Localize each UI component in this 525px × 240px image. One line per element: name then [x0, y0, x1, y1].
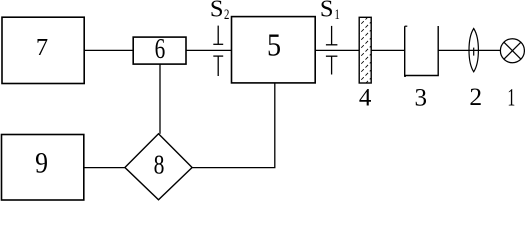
svg-text:1: 1 — [335, 5, 340, 22]
box 6 — [133, 37, 186, 64]
diamond 8 — [125, 134, 192, 200]
svg-text:2: 2 — [224, 5, 229, 22]
svg-text:7: 7 — [36, 34, 48, 61]
shutter S1 — [326, 26, 338, 75]
svg-text:S: S — [320, 0, 334, 22]
box 5 — [232, 17, 316, 83]
box 7 — [2, 17, 84, 83]
svg-text:3: 3 — [415, 85, 428, 112]
svg-text:6: 6 — [155, 35, 166, 65]
svg-text:5: 5 — [267, 27, 281, 63]
wire 5 down and left to diamond 8 — [192, 83, 275, 168]
wire filter 4 to cuvette 3 — [371, 49, 405, 51]
cuvette 3 — [405, 26, 439, 76]
svg-text:S: S — [210, 0, 224, 22]
wire 7 to 6 — [84, 49, 133, 51]
box 9 — [2, 135, 84, 201]
lens 2 — [469, 29, 478, 72]
wire 6 down to diamond 8 — [159, 64, 161, 134]
svg-text:4: 4 — [359, 85, 372, 112]
wire 9 to diamond 8 — [84, 167, 125, 169]
filter 4 (hatched) — [357, 10, 375, 100]
svg-text:2: 2 — [469, 82, 482, 111]
shutter S2 — [213, 26, 223, 76]
wire cuvette 3 to lamp 1 — [438, 49, 501, 51]
wire 5 to filter 4 — [315, 49, 359, 51]
svg-text:9: 9 — [35, 147, 48, 180]
lamp 1 — [500, 39, 524, 63]
svg-text:1: 1 — [507, 83, 515, 112]
svg-text:8: 8 — [154, 150, 165, 180]
wire 6 to 5 — [186, 49, 232, 51]
